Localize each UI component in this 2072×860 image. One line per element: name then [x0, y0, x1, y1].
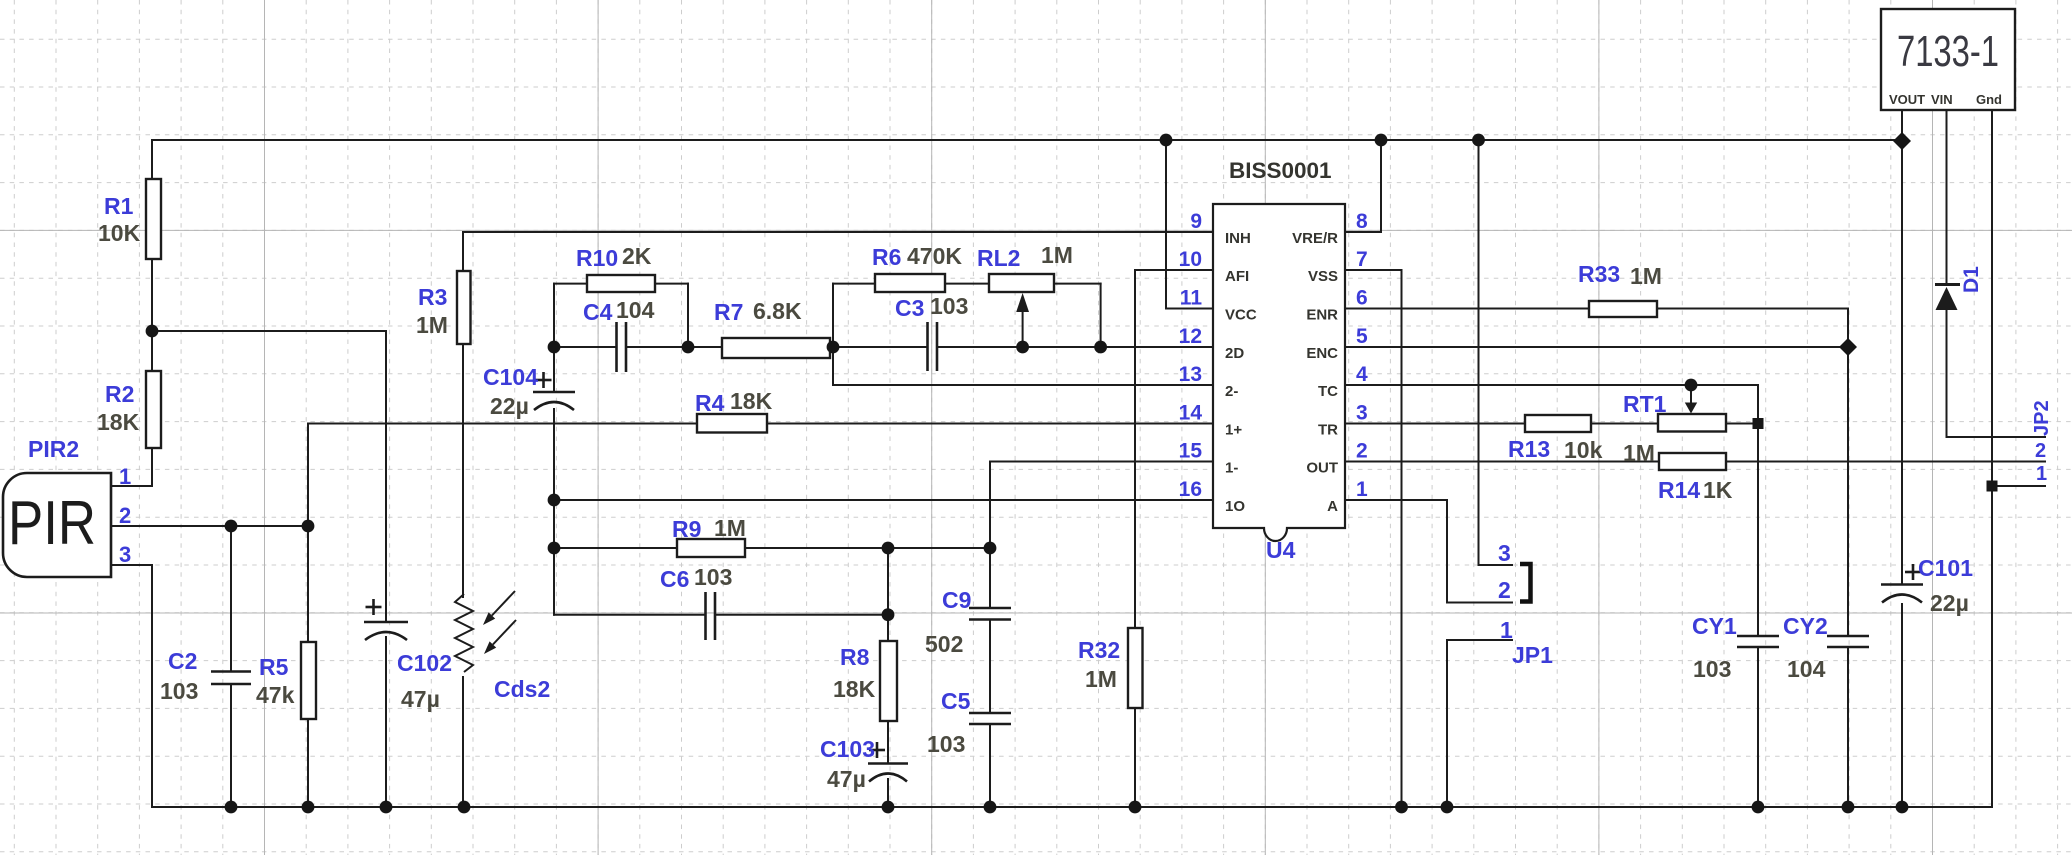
svg-text:TR: TR — [1318, 422, 1338, 439]
svg-text:BISS0001: BISS0001 — [1229, 158, 1332, 183]
svg-text:1M: 1M — [1630, 263, 1662, 289]
svg-text:Gnd: Gnd — [1976, 92, 2002, 107]
svg-text:4: 4 — [1356, 363, 1368, 386]
svg-text:7: 7 — [1356, 248, 1368, 271]
svg-text:AFI: AFI — [1225, 268, 1249, 285]
svg-text:R33: R33 — [1578, 261, 1620, 287]
svg-text:6.8K: 6.8K — [753, 298, 802, 324]
svg-text:11: 11 — [1180, 287, 1203, 310]
svg-text:2-: 2- — [1225, 383, 1238, 400]
svg-text:VCC: VCC — [1225, 307, 1257, 324]
svg-text:2D: 2D — [1225, 345, 1244, 362]
svg-text:TC: TC — [1318, 383, 1338, 400]
svg-text:47k: 47k — [256, 682, 295, 708]
svg-text:7133-1: 7133-1 — [1897, 27, 1999, 76]
svg-text:R10: R10 — [576, 245, 618, 271]
svg-text:47µ: 47µ — [827, 766, 866, 792]
svg-text:10K: 10K — [98, 220, 141, 246]
svg-text:3: 3 — [1356, 402, 1368, 425]
svg-text:CY1: CY1 — [1692, 613, 1737, 639]
svg-text:C102: C102 — [397, 650, 452, 676]
svg-text:A: A — [1327, 498, 1338, 515]
svg-text:10: 10 — [1179, 248, 1202, 271]
svg-text:3: 3 — [119, 542, 131, 567]
svg-text:Cds2: Cds2 — [494, 676, 550, 702]
svg-text:INH: INH — [1225, 230, 1251, 247]
svg-text:VIN: VIN — [1931, 92, 1953, 107]
svg-text:C3: C3 — [895, 295, 924, 321]
svg-text:15: 15 — [1179, 440, 1203, 463]
svg-text:103: 103 — [694, 564, 732, 590]
svg-text:C101: C101 — [1918, 555, 1973, 581]
svg-text:16: 16 — [1179, 478, 1202, 501]
svg-text:C2: C2 — [168, 648, 197, 674]
svg-text:47µ: 47µ — [401, 686, 440, 712]
svg-text:2: 2 — [119, 503, 131, 528]
svg-text:1M: 1M — [1041, 242, 1073, 268]
svg-text:18K: 18K — [730, 388, 773, 414]
svg-text:22µ: 22µ — [490, 393, 529, 419]
svg-text:OUT: OUT — [1306, 460, 1338, 477]
svg-text:1M: 1M — [1085, 666, 1117, 692]
svg-text:R2: R2 — [105, 381, 134, 407]
svg-text:1K: 1K — [1703, 477, 1733, 503]
svg-text:C5: C5 — [941, 688, 971, 714]
svg-text:C4: C4 — [583, 299, 613, 325]
svg-text:VRE/R: VRE/R — [1292, 230, 1338, 247]
svg-text:U4: U4 — [1266, 537, 1296, 563]
svg-text:JP1: JP1 — [1512, 642, 1553, 668]
svg-text:12: 12 — [1179, 325, 1202, 348]
svg-text:RT1: RT1 — [1623, 391, 1667, 417]
svg-text:103: 103 — [930, 293, 968, 319]
svg-text:PIR2: PIR2 — [28, 436, 79, 462]
svg-text:PIR: PIR — [8, 489, 96, 558]
svg-text:10k: 10k — [1564, 437, 1603, 463]
svg-text:1M: 1M — [1623, 440, 1655, 466]
svg-text:103: 103 — [927, 731, 965, 757]
svg-text:R13: R13 — [1508, 436, 1550, 462]
svg-text:18K: 18K — [833, 676, 876, 702]
svg-text:CY2: CY2 — [1783, 613, 1828, 639]
svg-text:1-: 1- — [1225, 460, 1238, 477]
svg-text:103: 103 — [1693, 656, 1731, 682]
svg-text:R9: R9 — [672, 516, 701, 542]
svg-text:1O: 1O — [1225, 498, 1245, 515]
svg-text:1M: 1M — [714, 515, 746, 541]
svg-text:1+: 1+ — [1225, 422, 1242, 439]
svg-text:2: 2 — [1356, 440, 1368, 463]
svg-text:ENR: ENR — [1306, 307, 1338, 324]
svg-text:2K: 2K — [622, 243, 652, 269]
svg-text:R1: R1 — [104, 193, 134, 219]
svg-text:502: 502 — [925, 631, 963, 657]
svg-text:104: 104 — [616, 297, 655, 323]
svg-text:R3: R3 — [418, 284, 447, 310]
svg-text:1: 1 — [1356, 478, 1368, 501]
svg-text:1: 1 — [1500, 617, 1513, 643]
svg-text:VOUT: VOUT — [1889, 92, 1925, 107]
svg-text:14: 14 — [1179, 402, 1203, 425]
svg-text:470K: 470K — [907, 243, 962, 269]
svg-text:18K: 18K — [97, 409, 140, 435]
svg-text:22µ: 22µ — [1930, 590, 1969, 616]
svg-text:R4: R4 — [695, 390, 725, 416]
svg-text:C6: C6 — [660, 566, 689, 592]
svg-text:104: 104 — [1787, 656, 1826, 682]
svg-text:103: 103 — [160, 678, 198, 704]
svg-text:R14: R14 — [1658, 477, 1700, 503]
svg-text:5: 5 — [1356, 325, 1368, 348]
svg-text:1: 1 — [2036, 463, 2047, 485]
svg-text:2: 2 — [2035, 440, 2046, 462]
svg-text:VSS: VSS — [1308, 268, 1338, 285]
svg-text:8: 8 — [1356, 210, 1368, 233]
svg-text:D1: D1 — [1960, 266, 1983, 293]
svg-text:R5: R5 — [259, 654, 289, 680]
svg-text:1: 1 — [119, 464, 131, 489]
svg-text:R6: R6 — [872, 244, 901, 270]
svg-text:C103: C103 — [820, 736, 875, 762]
svg-text:JP2: JP2 — [2031, 400, 2053, 436]
svg-text:R7: R7 — [714, 299, 743, 325]
svg-text:2: 2 — [1498, 577, 1511, 603]
svg-text:R8: R8 — [840, 644, 870, 670]
svg-text:C9: C9 — [942, 587, 971, 613]
svg-text:R32: R32 — [1078, 637, 1120, 663]
svg-text:9: 9 — [1190, 210, 1202, 233]
svg-text:13: 13 — [1179, 363, 1202, 386]
svg-text:6: 6 — [1356, 287, 1368, 310]
svg-text:1M: 1M — [416, 312, 448, 338]
svg-text:3: 3 — [1498, 540, 1511, 566]
svg-text:ENC: ENC — [1306, 345, 1338, 362]
svg-text:C104: C104 — [483, 364, 538, 390]
svg-text:RL2: RL2 — [977, 245, 1020, 271]
